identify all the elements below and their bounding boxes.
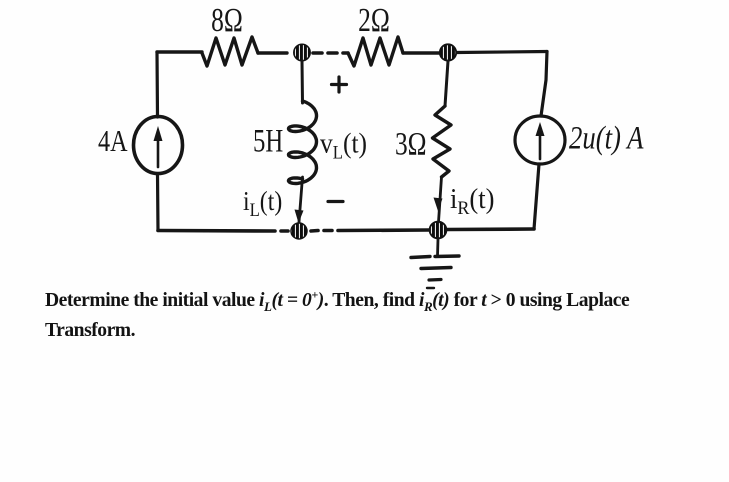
wire dashed node A to 2ohm (313, 51, 348, 55)
resistor R1 8ohm zigzag (202, 37, 258, 66)
wire 3ohm to node D with iR arrow (439, 177, 442, 222)
current source CS1 arrow (157, 138, 160, 167)
wire bottom (node D to node C) (311, 230, 429, 231)
node C (bottom middle junction, hatched) (291, 223, 307, 239)
current source CS2 arrow (539, 133, 542, 159)
ground bar 1 (411, 256, 459, 258)
polarity minus (328, 200, 343, 203)
arrow iR head (434, 198, 443, 212)
wire bottom (node C to left corner) (158, 229, 288, 233)
svg-text:2u(t) A: 2u(t) A (569, 120, 644, 156)
wire inductor to node C with iL arrow (299, 177, 303, 222)
wire right vertical lower (source CS2 to bottom corner) (534, 164, 539, 229)
node B (top right junction) (440, 44, 456, 60)
wire left vertical lower (corner up to source CS1) (156, 174, 160, 231)
inductor L1 5H coil (289, 101, 317, 184)
resistor R2 2ohm zigzag (348, 37, 403, 66)
resistor R3 3ohm vertical zigzag (433, 106, 452, 177)
wire bottom (right corner to node D) (447, 227, 534, 231)
ground stem (436, 239, 439, 256)
svg-text:2Ω: 2Ω (358, 0, 390, 38)
wire right vertical upper (corner down to source CS2) (541, 52, 547, 117)
current source CS1 4A circle (134, 117, 183, 174)
current source CS2 2u(t) circle (515, 116, 565, 164)
wire from R1 to node A (258, 51, 287, 54)
svg-text:3Ω: 3Ω (395, 126, 427, 162)
arrow iL head (295, 210, 304, 224)
node D (bottom right junction) (430, 222, 447, 239)
svg-text:5H: 5H (253, 123, 283, 159)
wire top-left horizontal (left corner to 8ohm resistor) (157, 50, 202, 53)
node A (top middle junction, hatched) (294, 44, 310, 60)
wire left vertical upper (source CS1 to top corner) (155, 52, 159, 117)
wire node B to top-right corner (457, 52, 547, 53)
wire from R2 to node B (403, 51, 439, 54)
svg-text:8Ω: 8Ω (211, 0, 243, 38)
ground bar 2 (421, 268, 451, 269)
polarity plus (332, 77, 347, 92)
svg-text:4A: 4A (98, 124, 128, 159)
svg-text:iR(t): iR(t) (450, 183, 495, 219)
ground bar 3 (429, 278, 441, 282)
ground tick (427, 287, 434, 289)
wire node A down to inductor (301, 61, 305, 103)
svg-text:vL(t): vL(t) (320, 127, 367, 163)
wire node B down to 3ohm (445, 61, 448, 106)
problem statement text (45, 286, 705, 347)
svg-text:iL(t): iL(t) (243, 186, 282, 221)
